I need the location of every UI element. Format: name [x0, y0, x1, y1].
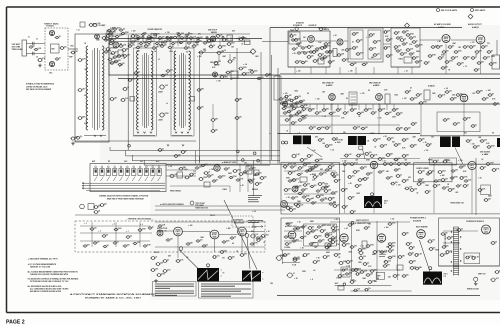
wire T1 bottom	[134, 135, 155, 137]
resistor block R27	[333, 49, 337, 57]
resistor R62	[364, 152, 369, 155]
capacitor C206	[296, 227, 301, 230]
capacitor C108	[248, 179, 253, 182]
wire riser c	[260, 52, 262, 164]
junction dots row1	[137, 38, 138, 39]
schematic border frame bottom	[7, 312, 500, 314]
row1 tick leads	[130, 37, 132, 42]
coupling block	[231, 71, 238, 78]
resistor R156	[364, 288, 369, 291]
contrast label box	[232, 216, 253, 227]
svg-text:220: 220	[64, 46, 67, 48]
resistor R51	[385, 112, 390, 115]
resistor R28	[386, 39, 391, 42]
test point TP1	[92, 23, 98, 26]
capacitor C91 pair	[281, 141, 284, 144]
wire yoke link a	[165, 230, 174, 232]
svg-text:C1: C1	[28, 37, 30, 39]
IF coil block	[227, 35, 233, 41]
resistor R89	[314, 236, 319, 239]
coil arrows	[94, 135, 96, 137]
resistor R20	[226, 71, 231, 74]
capacitor C77	[322, 109, 327, 112]
svg-text:.01: .01	[59, 57, 61, 59]
pcb extra	[83, 245, 88, 247]
capacitor C205	[298, 192, 303, 195]
node diamond C	[359, 251, 364, 256]
resistor R83	[330, 173, 335, 176]
resistor R153	[345, 273, 350, 275]
wire AGC rail	[109, 74, 280, 76]
wire sync inner a	[284, 170, 336, 172]
fuse F2	[427, 240, 432, 243]
wire hor link b	[334, 269, 400, 271]
vertical oscillator box	[281, 218, 340, 250]
resistor R77	[156, 274, 161, 277]
resistor R58	[493, 103, 498, 106]
resistor R119	[342, 59, 347, 62]
wire nest 2	[126, 155, 281, 157]
coil core line a	[94, 48, 96, 130]
capacitor C160	[346, 261, 351, 264]
wire switch risers	[195, 151, 197, 164]
capacitor C176	[134, 72, 139, 75]
channel selector switch body	[90, 164, 166, 192]
block c	[338, 286, 344, 290]
wire row1 second	[109, 41, 250, 43]
resistor R50	[371, 112, 376, 115]
resistor R53	[410, 98, 415, 101]
resistor R26	[328, 61, 333, 64]
capacitor C186	[411, 123, 416, 126]
resistor R124	[211, 130, 216, 133]
tube V11 2nd video IF	[329, 94, 336, 101]
capacitor C199	[366, 245, 371, 248]
IF transformer T2 secondary	[189, 51, 191, 130]
tube V20 damper	[377, 234, 385, 242]
resistor R49	[357, 112, 362, 115]
detector block	[424, 90, 430, 100]
capacitor C62	[438, 57, 443, 60]
capacitor C31	[184, 47, 189, 50]
capacitor C2	[31, 52, 33, 55]
trimmer C104	[179, 167, 184, 170]
resistor R63	[325, 145, 330, 148]
tube V16 vertical oscillator	[288, 231, 296, 239]
svg-text:.02: .02	[130, 235, 132, 237]
resistor R56	[456, 94, 461, 97]
resistor R98	[486, 163, 491, 166]
resistor R161	[123, 55, 128, 58]
capacitor C121	[292, 179, 297, 182]
resistor R39	[487, 51, 492, 54]
wire sync inner b	[284, 193, 336, 195]
IF AGC divider box	[274, 76, 281, 100]
svg-text:▲ 7: ▲ 7	[126, 231, 129, 233]
capacitor C232	[119, 45, 124, 48]
resistor R143	[314, 165, 319, 168]
capacitor C54	[383, 31, 388, 34]
horiz module box	[481, 185, 491, 195]
resistor R3	[110, 39, 115, 42]
capacitor C117	[250, 234, 256, 238]
wire IF left vertical	[127, 35, 129, 150]
tube V22 rectifier	[417, 230, 426, 239]
junction dots rails	[269, 73, 270, 74]
capacitor C107	[232, 170, 237, 173]
capacitor C169	[463, 46, 468, 49]
capacitor C147	[342, 206, 347, 209]
capacitor C23	[216, 35, 221, 38]
capacitor C238	[195, 41, 200, 43]
resistor R165	[171, 42, 176, 44]
vertical bus left	[269, 28, 271, 164]
resistor R103	[463, 185, 468, 188]
fine tuning block	[177, 172, 183, 178]
capacitor C150	[478, 189, 483, 192]
resistor R130	[378, 158, 383, 161]
wire 1st IF plate line	[109, 38, 262, 40]
capacitor C41	[307, 56, 312, 59]
capacitor C196	[441, 179, 446, 182]
svg-text:▲ 5: ▲ 5	[112, 224, 115, 226]
capacitor C177	[161, 74, 166, 77]
sound trap block	[289, 32, 300, 44]
resistor R19	[227, 60, 232, 63]
capacitor C40	[307, 46, 312, 49]
junction dots row2	[289, 103, 290, 104]
tube V21 remote amp	[482, 225, 491, 234]
capacitor C101	[480, 140, 485, 143]
resistor R125	[291, 122, 296, 125]
wire nest 1	[110, 150, 280, 152]
capacitor C118	[260, 235, 265, 238]
capacitor C184	[361, 127, 366, 130]
capacitor C61	[448, 46, 453, 49]
tube V12 3rd video IF	[376, 94, 383, 101]
wire remote bottom	[439, 265, 500, 267]
T7 terminal dots	[451, 231, 452, 232]
resistor R109	[406, 243, 411, 246]
capacitor C8	[102, 37, 107, 40]
resistor R24	[320, 47, 325, 50]
resistor R96	[389, 163, 394, 166]
capacitor C215	[176, 260, 181, 263]
capacitor C190	[386, 154, 391, 157]
vert lin control	[287, 273, 294, 278]
capacitor C227	[388, 256, 393, 259]
wire verticals horizrow	[344, 164, 346, 213]
antenna terminal strip	[22, 40, 27, 56]
resistor R2 with ground	[70, 137, 75, 140]
capacitor C154	[368, 281, 373, 284]
capacitor C208	[441, 233, 446, 236]
capacitor C15	[108, 58, 113, 61]
switch bus line 4	[86, 190, 160, 192]
capacitor C11	[77, 117, 82, 120]
IF transformer T2 primary	[174, 51, 176, 130]
wire vertbox inner	[284, 230, 302, 232]
T1 terminal b	[148, 36, 151, 39]
sound output cluster box	[430, 158, 457, 165]
capacitor C200	[350, 246, 355, 249]
yoke plug circle b	[210, 230, 219, 239]
ratio det secondary	[368, 30, 381, 59]
capacitor C226	[388, 243, 393, 246]
capacitor C73	[282, 107, 287, 110]
capacitor C219	[174, 155, 179, 158]
capacitor C201	[383, 265, 388, 268]
capacitor C87	[476, 91, 481, 94]
capacitor C82	[392, 109, 397, 112]
capacitor C128	[328, 198, 333, 201]
W1 stem	[207, 264, 210, 267]
wire link row2 left	[108, 34, 110, 75]
capacitor C6	[71, 51, 76, 54]
wire ps bottom b	[277, 295, 480, 297]
capacitor C58	[406, 34, 411, 37]
wire takeoff	[199, 52, 252, 54]
capacitor C230	[109, 32, 114, 35]
resistor R135	[433, 185, 438, 188]
capacitor C71	[284, 95, 289, 98]
node diamond A	[250, 49, 256, 55]
wire tuner bottom	[75, 140, 109, 142]
capacitor C148	[390, 182, 395, 185]
converter block box	[80, 22, 85, 27]
svg-text:TUNER V1 6BQ7A: TUNER V1 6BQ7A	[44, 23, 59, 26]
wire pcb inner b	[80, 232, 152, 234]
resistor R162	[118, 63, 123, 66]
capacitor C92	[344, 154, 349, 157]
capacitor C17	[136, 37, 141, 40]
capacitor C220	[158, 149, 163, 152]
capacitor C106	[198, 177, 203, 180]
svg-text:TAKEN AT 117 V AC LINE: TAKEN AT 117 V AC LINE	[30, 266, 51, 269]
resistor R78	[162, 270, 167, 273]
resistor R90	[328, 239, 333, 242]
resistor R112b	[440, 254, 445, 257]
resistor R70	[443, 160, 448, 163]
T1 arrows	[137, 132, 139, 134]
svg-text:▲ 3: ▲ 3	[98, 231, 101, 233]
capacitor C49	[356, 53, 361, 56]
resistor R160	[109, 42, 114, 45]
capacitor C35	[216, 51, 221, 54]
capacitor C235	[147, 41, 152, 43]
label top right b	[471, 9, 474, 12]
capacitor C114	[162, 260, 167, 263]
tuner plug P1	[80, 204, 85, 209]
capacitor C32	[122, 87, 127, 90]
capacitor C137	[383, 163, 388, 166]
wire horiz line	[166, 163, 500, 165]
resistor R166	[187, 42, 192, 44]
tube V9 audio output	[476, 35, 485, 44]
resistor R108	[393, 275, 398, 278]
svg-text:▲ INDICATES TERMINAL NO. OF PC: ▲ INDICATES TERMINAL NO. OF PC	[28, 258, 59, 261]
junction circle g	[245, 234, 249, 238]
capacitor C30	[160, 45, 165, 48]
capacitor C109	[260, 177, 265, 180]
vert osc inner box	[304, 224, 337, 246]
resistor R42	[289, 99, 294, 102]
row1 extra circles	[142, 36, 144, 38]
resistor R18	[213, 61, 218, 64]
capacitor C228	[325, 235, 330, 238]
trap block	[245, 40, 251, 45]
resistor R82	[284, 189, 289, 192]
capacitor C94	[318, 139, 323, 142]
sync extra	[290, 166, 295, 168]
svg-text:220: 220	[97, 241, 100, 243]
resistor R15	[192, 45, 197, 48]
resistor R22	[312, 51, 317, 54]
sound box3 extra	[396, 37, 401, 39]
capacitor C237	[179, 41, 184, 43]
resistor R37	[457, 63, 462, 66]
wire antenna lead upper	[27, 43, 46, 45]
resistor R74	[255, 183, 260, 186]
T1 core a	[143, 53, 145, 128]
tube V1A RF amplifier	[49, 30, 54, 35]
capacitor C197	[348, 224, 353, 227]
IF shield can	[349, 92, 357, 105]
waveform photo W2	[242, 271, 261, 282]
block a	[362, 241, 367, 248]
capacitor C158	[402, 233, 407, 236]
wire vert a	[282, 250, 284, 264]
svg-text:270: 270	[84, 95, 87, 97]
capacitor C159	[410, 267, 415, 270]
capacitor C28	[136, 46, 141, 49]
capacitor C44	[323, 46, 328, 49]
wire sound links	[300, 40, 307, 42]
resistor R117	[463, 57, 468, 60]
resistor R131	[394, 158, 399, 161]
capacitor C111	[93, 211, 98, 214]
resistor R69	[487, 146, 492, 149]
capacitor C181	[298, 119, 303, 122]
wire verticals sound-to-rail	[294, 67, 296, 74]
tube V6 sound IF	[308, 36, 315, 43]
resistor R41	[489, 63, 494, 66]
label AGC	[248, 221, 263, 223]
left cluster extra	[107, 29, 112, 31]
wire sound box bottoms	[288, 66, 330, 68]
W2 gap	[251, 271, 253, 282]
capacitor C75	[302, 108, 307, 111]
W1 scale ticks	[221, 269, 223, 271]
wire IF bottom	[109, 140, 196, 142]
capacitor C29	[144, 45, 149, 48]
tube V14 1st sync	[214, 165, 220, 171]
tube V8 AF amplifier	[442, 35, 450, 43]
capacitor C229	[325, 246, 330, 249]
capacitor C216	[212, 256, 217, 259]
wire yoke link d	[247, 231, 266, 233]
capacitor C21	[189, 37, 194, 40]
capacitor C25	[209, 45, 214, 48]
capacitor C143	[492, 169, 497, 172]
resistor R139	[380, 251, 385, 254]
resistor R45	[297, 111, 302, 114]
T1 core b	[145, 53, 147, 128]
capacitor C166	[490, 278, 496, 282]
capacitor C38	[289, 35, 294, 38]
schematic border frame top	[7, 6, 500, 8]
capacitor C193	[396, 175, 401, 178]
svg-text:SYMBOLS USED IN HARMONICS: SYMBOLS USED IN HARMONICS	[26, 83, 55, 86]
capacitor C70	[279, 98, 284, 101]
capacitor C22	[207, 40, 212, 43]
node diamond B	[405, 23, 410, 28]
svg-text:— PRINTED CIRCUIT BOARD —: — PRINTED CIRCUIT BOARD —	[126, 218, 154, 221]
junction a	[128, 144, 131, 147]
resistor R136	[448, 189, 453, 192]
resistor R155	[366, 274, 371, 277]
resistor R8	[166, 37, 171, 40]
ground tuner	[71, 142, 75, 145]
capacitor C57	[394, 46, 399, 49]
capacitor C151	[334, 254, 339, 257]
oscillator trimmer block	[106, 33, 112, 40]
capacitor C180	[285, 119, 290, 122]
capacitor C122	[328, 166, 333, 169]
note box right text	[201, 284, 251, 286]
wire riser b	[236, 48, 238, 164]
capacitor C24	[227, 43, 232, 46]
resistor R44	[287, 110, 292, 113]
wire switch to sync	[166, 175, 196, 177]
output transformer T3	[492, 55, 500, 69]
svg-text:120: 120	[94, 227, 97, 229]
capacitor C39	[294, 39, 299, 42]
coupling block b	[292, 103, 297, 107]
wire nest 3	[132, 160, 280, 162]
IF transformer T1 primary	[137, 51, 139, 130]
vertical label strip	[444, 234, 446, 247]
vertical bus right	[277, 68, 279, 164]
capacitor C120	[303, 163, 308, 166]
capacitor C19	[158, 37, 163, 40]
resistor R65	[394, 144, 399, 147]
capacitor C136	[342, 163, 347, 166]
capacitor C95	[332, 138, 337, 141]
junction dots extra	[128, 74, 129, 75]
junction circle f	[179, 247, 183, 251]
svg-text:33: 33	[33, 45, 35, 47]
capacitor C99	[418, 139, 423, 142]
resistor R149	[102, 235, 107, 238]
capacitor C13	[105, 48, 110, 51]
capacitor C233	[110, 62, 115, 65]
label vert out tube	[351, 221, 354, 224]
capacitor C85	[438, 95, 443, 98]
note box right	[199, 282, 254, 299]
svg-text:1500: 1500	[118, 228, 122, 230]
resistor R67	[426, 144, 431, 147]
antenna area extra	[29, 46, 34, 48]
resistor R148	[457, 229, 462, 232]
capacitor C63	[451, 57, 456, 60]
resistor R60	[471, 125, 476, 128]
wire sync inner c	[284, 202, 336, 204]
resistor R72	[203, 172, 208, 175]
volume control R30	[399, 39, 404, 42]
junction e	[257, 159, 260, 162]
resistor R34	[442, 51, 447, 54]
